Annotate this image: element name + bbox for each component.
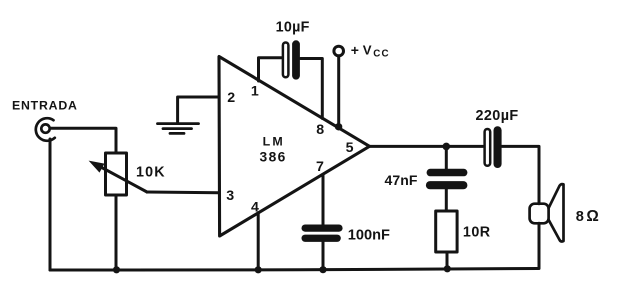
wire input jack shield to ground rail — [49, 139, 52, 270]
wire node to C3 — [445, 146, 448, 169]
wire pot bottom to rail — [115, 195, 118, 270]
junction R1/rail — [444, 265, 451, 272]
wire output pin 5 to C4 — [370, 145, 484, 148]
wire bottom ground rail — [50, 269, 538, 271]
svg-text:47nF: 47nF — [385, 172, 418, 188]
svg-text:ENTRADA: ENTRADA — [12, 99, 78, 113]
svg-text:+: + — [351, 42, 359, 58]
svg-text:7: 7 — [316, 159, 324, 175]
connector J1 ENTRADA input jack — [36, 118, 55, 141]
wire speaker to rail — [538, 223, 541, 268]
svg-text:Ω: Ω — [586, 208, 598, 225]
wire pin 7 to C2 — [322, 175, 325, 226]
svg-text:CC: CC — [373, 49, 389, 60]
wire C3 to R1 — [445, 189, 448, 211]
capacitor C2 100nF — [302, 225, 343, 242]
node output junction — [443, 143, 451, 151]
svg-text:8: 8 — [316, 122, 324, 138]
ground — [158, 124, 199, 134]
label +Vcc — [351, 42, 390, 59]
junction Vcc on triangle edge — [335, 123, 342, 130]
svg-text:10µF: 10µF — [276, 20, 310, 36]
wire wiper to pin 3 — [147, 191, 219, 195]
svg-text:10R: 10R — [463, 225, 491, 241]
wire jack hot to potentiometer top — [50, 128, 116, 153]
resistor R1 10R — [436, 211, 457, 252]
wire R1 to rail — [446, 252, 449, 269]
potentiometer P1 10K — [89, 153, 147, 195]
svg-text:10K: 10K — [136, 164, 166, 180]
svg-text:8: 8 — [576, 209, 584, 225]
wire pin 4 to rail — [257, 213, 260, 270]
op-amp U1 LM386 — [219, 57, 370, 237]
wire C4 right to speaker — [502, 146, 539, 203]
svg-text:V: V — [363, 42, 372, 57]
junction C2/rail — [319, 266, 326, 273]
wire C2 to rail — [322, 242, 325, 271]
junction pin4/rail — [255, 266, 262, 273]
svg-text:220µF: 220µF — [476, 108, 519, 124]
speaker LS1 — [530, 184, 564, 241]
capacitor C3 47nF — [426, 169, 468, 190]
terminal +Vcc — [334, 46, 344, 56]
svg-text:100nF: 100nF — [348, 227, 390, 243]
svg-text:5: 5 — [346, 140, 354, 156]
capacitor C4 220uF — [485, 126, 502, 168]
svg-text:2: 2 — [227, 90, 235, 106]
junction pot/rail — [113, 266, 120, 273]
wire pin 1 riser to C1 — [259, 58, 282, 81]
wire C1 right to pin 8 — [301, 59, 323, 119]
capacitor C1 10uF — [283, 40, 300, 79]
wire Vcc to pin 6 junction — [337, 56, 340, 128]
svg-text:1: 1 — [251, 83, 259, 99]
svg-text:LM: LM — [263, 135, 285, 149]
svg-text:386: 386 — [260, 150, 287, 165]
svg-text:3: 3 — [226, 188, 234, 204]
wire pin 2 to ground — [178, 97, 219, 123]
